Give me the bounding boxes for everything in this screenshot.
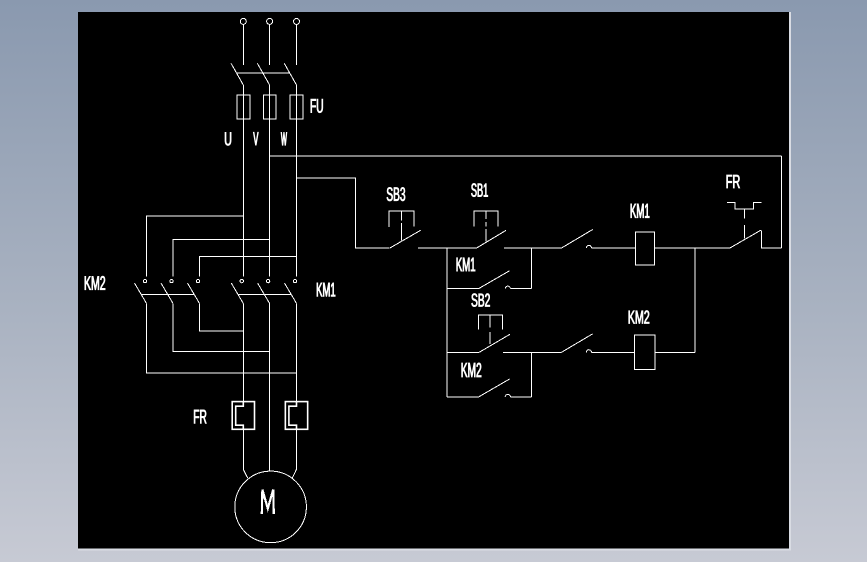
fuse FU phase V body — [263, 95, 276, 119]
label FR main — [194, 410, 206, 424]
contactor KM1 pole2 blade — [258, 283, 270, 303]
contactor KM2 pole2 terminal — [170, 279, 173, 282]
contact KM1 aux blade — [479, 271, 510, 289]
contact KM2 aux blade — [479, 379, 510, 397]
contact SB1 blade — [477, 230, 506, 248]
contact KM1 aux terminal arc — [505, 286, 510, 289]
label SB1 — [471, 183, 488, 196]
label FU — [311, 99, 323, 113]
wire KM1 aux to right rail — [510, 288, 531, 290]
thermal relay FR heater 2 — [285, 402, 307, 430]
contact KM2 aux terminal arc — [505, 394, 510, 397]
wire KM2 pole2 out — [173, 303, 270, 351]
button SB2 stem — [489, 315, 491, 344]
wire V to motor — [269, 303, 271, 471]
supply terminal L1 — [240, 18, 246, 24]
wire heater2 to motor — [292, 429, 296, 478]
interlock contact KM2 blade (row1) — [562, 230, 593, 249]
fuse FU phase W body — [290, 95, 303, 119]
wire left rail — [446, 248, 448, 397]
wire KM2 aux to right rail — [510, 396, 531, 398]
wire SB3 to SB1 — [418, 247, 477, 249]
button SB2 cap — [478, 315, 502, 329]
wire heater1 to motor — [243, 429, 248, 478]
button SB1 cap — [474, 211, 498, 226]
contactor KM2 pole1 blade — [135, 283, 147, 303]
interlock contact KM2 terminal arc — [586, 245, 591, 248]
wire KM2 pole3 out — [200, 303, 244, 330]
wire control feed from W — [297, 178, 390, 248]
wire right rail upper — [530, 248, 532, 289]
wire U to heater — [242, 303, 244, 401]
drawing canvas — [78, 12, 789, 549]
disconnect switch QS pole 1 blade — [231, 63, 243, 85]
coil KM1 — [635, 232, 654, 265]
wire KM2 pole1 out — [147, 303, 297, 373]
wire right rail lower — [530, 352, 532, 397]
label W — [281, 132, 287, 145]
motor M circle — [235, 471, 307, 543]
thermal relay FR heater 1 — [232, 402, 254, 430]
wire crossover B (V to KM2 pole2) — [173, 240, 270, 277]
label KM2 main — [85, 276, 105, 290]
label SB3 — [387, 187, 405, 201]
wire interlock to KM1 coil — [592, 247, 636, 249]
contactor KM2 linkage bar — [141, 293, 194, 295]
wire junction to row2 — [694, 248, 696, 352]
thermal contact FR blade — [730, 230, 761, 248]
supply terminal L3 — [294, 18, 300, 24]
label V — [253, 132, 258, 145]
contact SB2 blade — [479, 334, 510, 352]
label SB2 — [472, 294, 490, 307]
switch QS linkage bar — [237, 72, 290, 74]
wire phase V vertical — [269, 85, 271, 277]
button SB3 stem — [401, 211, 403, 240]
wire KM1 coil out — [655, 247, 730, 249]
contact SB3 blade — [390, 230, 421, 248]
wire SB1 to interlock — [504, 247, 562, 249]
thermal FR trip symbol — [727, 202, 761, 238]
contactor KM1 linkage bar — [238, 293, 291, 295]
wire L3 drop — [296, 24, 298, 65]
label KM1 main — [317, 283, 335, 297]
coil KM2 — [634, 335, 654, 369]
wire KM2 coil out — [655, 351, 695, 353]
interlock contact KM1 terminal arc — [586, 350, 591, 353]
label KM2 coil — [629, 311, 650, 324]
fuse FU phase U body — [237, 95, 250, 119]
contactor KM1 pole3 blade — [285, 283, 297, 303]
wire KM2 aux row — [447, 396, 479, 398]
wire KM1 aux row — [447, 288, 479, 290]
button SB1 stem — [485, 211, 487, 241]
contactor KM2 pole3 blade — [188, 283, 200, 303]
contactor KM1 pole3 terminal — [293, 279, 296, 282]
contactor KM1 pole1 blade — [231, 283, 243, 303]
contactor KM1 pole2 terminal — [266, 279, 269, 282]
label U — [225, 132, 231, 145]
wire phase W vertical — [296, 85, 298, 277]
label KM1 aux — [457, 258, 476, 272]
wire L1 drop — [242, 24, 244, 65]
disconnect switch QS pole 3 blade — [284, 63, 296, 85]
disconnect switch QS pole 2 blade — [257, 63, 269, 85]
contactor KM2 pole1 terminal — [143, 279, 146, 282]
wire L2 drop — [269, 24, 271, 65]
label KM1 coil — [631, 204, 650, 218]
contactor KM2 pole2 blade — [161, 283, 173, 303]
supply terminal L2 — [267, 18, 273, 24]
wire interlock to KM2 coil — [592, 351, 635, 353]
contactor KM1 pole1 terminal — [240, 279, 243, 282]
wire control bus from V — [270, 155, 782, 157]
contactor KM2 pole3 terminal — [196, 279, 199, 282]
label KM2 aux — [462, 363, 482, 377]
button SB3 cap — [389, 211, 414, 227]
motor letter M — [262, 490, 274, 515]
wire SB2 to interlock row2 — [503, 351, 562, 353]
wire crossover C (W to KM2 pole3) — [200, 257, 297, 277]
label FR control — [727, 175, 740, 188]
thermal contact FR fixed terminal — [761, 231, 781, 248]
wire right bus — [781, 156, 783, 248]
wire row2 left — [447, 351, 479, 353]
interlock contact KM1 blade (row2) — [562, 334, 593, 353]
wire crossover A (U to KM2 pole1) — [147, 216, 244, 276]
wire phase U vertical — [242, 85, 244, 277]
wire W to heater — [296, 303, 298, 401]
